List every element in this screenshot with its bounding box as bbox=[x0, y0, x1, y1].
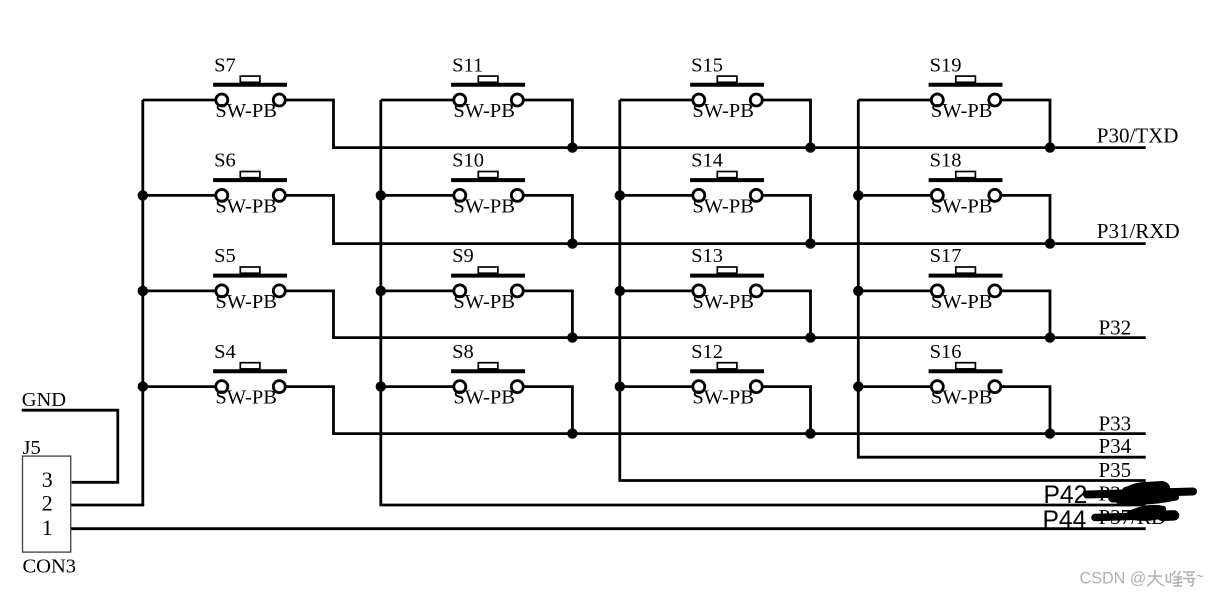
junction column 3 row 4 bbox=[615, 381, 625, 391]
wire column 2 vertical bus bbox=[379, 100, 382, 505]
wire column 3 bus to P35 bbox=[620, 479, 1146, 482]
watermark CSDN @大峰哥~ bbox=[1080, 569, 1205, 588]
junction row P31/RXD column 3 bbox=[805, 238, 815, 248]
wire S18 left contact to column bus bbox=[858, 194, 931, 197]
junction row P33 column 3 bbox=[805, 428, 815, 438]
wire column 3 vertical bus bbox=[618, 100, 621, 481]
svg-text:SW-PB: SW-PB bbox=[692, 291, 754, 313]
svg-text:CSDN @: CSDN @ bbox=[1080, 570, 1147, 588]
wire S7 left contact to column bus bbox=[143, 99, 216, 102]
wire S8 right contact down to row bus bbox=[524, 387, 573, 434]
junction row P30/TXD column 2 bbox=[567, 142, 577, 152]
svg-text:P34: P34 bbox=[1099, 434, 1132, 458]
svg-text:CON3: CON3 bbox=[23, 556, 77, 578]
junction column 3 row 2 bbox=[615, 190, 625, 200]
wire column 2 bus to P42 row bbox=[381, 503, 1146, 506]
wire S9 left contact to column bus bbox=[381, 289, 454, 292]
svg-text:3: 3 bbox=[42, 467, 53, 492]
svg-text:S15: S15 bbox=[691, 54, 723, 76]
wire S6 right contact down to row bus bbox=[286, 195, 334, 243]
wire S18 right contact down to row bus bbox=[1001, 195, 1050, 243]
junction column 2 row 4 bbox=[376, 381, 386, 391]
svg-text:SW-PB: SW-PB bbox=[453, 195, 515, 217]
pushbutton switch S11 bbox=[451, 54, 525, 122]
scribble over P37 label bbox=[1095, 508, 1174, 521]
connector J5 bbox=[23, 456, 71, 552]
pushbutton switch S19 bbox=[929, 54, 1003, 122]
svg-text:S16: S16 bbox=[930, 341, 962, 363]
pushbutton switch S10 bbox=[451, 150, 525, 218]
svg-text:S11: S11 bbox=[452, 54, 483, 76]
wire S15 left contact to column bus bbox=[620, 99, 693, 102]
wire S19 right contact down to row bus bbox=[1001, 100, 1050, 148]
svg-text:2: 2 bbox=[42, 491, 53, 516]
wire S5 right contact down to row bus bbox=[286, 291, 334, 338]
svg-text:S6: S6 bbox=[214, 150, 236, 172]
svg-text:SW-PB: SW-PB bbox=[215, 291, 277, 313]
svg-text:SW-PB: SW-PB bbox=[453, 100, 515, 122]
junction column 4 row 2 bbox=[853, 190, 863, 200]
pushbutton switch S16 bbox=[929, 341, 1003, 409]
wire S14 left contact to column bus bbox=[620, 194, 693, 197]
svg-text:S10: S10 bbox=[452, 150, 484, 172]
junction column 2 row 3 bbox=[376, 286, 386, 296]
svg-text:S8: S8 bbox=[452, 341, 474, 363]
wire S11 right contact down to row bus bbox=[524, 100, 573, 148]
junction row P31/RXD column 4 bbox=[1045, 238, 1055, 248]
wire S10 right contact down to row bus bbox=[524, 195, 573, 243]
wire S14 right contact down to row bus bbox=[763, 195, 811, 243]
svg-text:SW-PB: SW-PB bbox=[215, 100, 277, 122]
junction row P30/TXD column 3 bbox=[805, 142, 815, 152]
pushbutton switch S4 bbox=[213, 341, 287, 409]
pushbutton switch S7 bbox=[213, 54, 287, 122]
wire row bus P32 bbox=[332, 336, 1146, 339]
wire row bus P33 bbox=[332, 432, 1146, 435]
svg-text:P44: P44 bbox=[1043, 507, 1087, 534]
wire row bus P31/RXD bbox=[332, 242, 1146, 245]
svg-text:S14: S14 bbox=[691, 150, 723, 172]
wire S16 left contact to column bus bbox=[858, 385, 931, 388]
svg-text:SW-PB: SW-PB bbox=[215, 195, 277, 217]
pushbutton switch S8 bbox=[451, 341, 525, 409]
wire S7 right contact down to row bus bbox=[286, 100, 334, 148]
svg-text:SW-PB: SW-PB bbox=[931, 387, 993, 409]
pushbutton switch S12 bbox=[690, 341, 764, 409]
svg-text:J5: J5 bbox=[23, 437, 41, 459]
wire S13 left contact to column bus bbox=[620, 289, 693, 292]
pushbutton switch S18 bbox=[929, 150, 1003, 218]
junction column 1 row 2 bbox=[138, 190, 148, 200]
wire J5 pin 2 to column 1 bus bbox=[71, 504, 145, 507]
svg-text:P30/TXD: P30/TXD bbox=[1097, 123, 1179, 147]
wire S15 right contact down to row bus bbox=[763, 100, 811, 148]
svg-text:SW-PB: SW-PB bbox=[215, 387, 277, 409]
pushbutton switch S13 bbox=[690, 245, 764, 313]
wire S12 right contact down to row bus bbox=[763, 387, 811, 434]
svg-text:S17: S17 bbox=[930, 245, 962, 267]
junction column 4 row 3 bbox=[853, 286, 863, 296]
junction row P31/RXD column 2 bbox=[567, 238, 577, 248]
junction row P32 column 3 bbox=[805, 332, 815, 342]
svg-text:S19: S19 bbox=[930, 54, 962, 76]
wire J5 pin1 to P44 row bbox=[71, 527, 1146, 530]
wire GND to J5 pin 3 bbox=[22, 410, 118, 482]
svg-text:SW-PB: SW-PB bbox=[453, 291, 515, 313]
svg-text:GND: GND bbox=[22, 389, 66, 411]
junction column 2 row 2 bbox=[376, 190, 386, 200]
svg-text:SW-PB: SW-PB bbox=[931, 195, 993, 217]
junction row P30/TXD column 4 bbox=[1045, 142, 1055, 152]
svg-text:P35: P35 bbox=[1099, 458, 1132, 482]
junction column 3 row 3 bbox=[615, 286, 625, 296]
svg-text:S7: S7 bbox=[214, 54, 236, 76]
svg-text:P32: P32 bbox=[1099, 315, 1132, 339]
wire S10 left contact to column bus bbox=[381, 194, 454, 197]
wire column 4 vertical bus bbox=[857, 100, 860, 457]
pushbutton switch S14 bbox=[690, 150, 764, 218]
junction row P33 column 2 bbox=[567, 428, 577, 438]
wire S9 right contact down to row bus bbox=[524, 291, 573, 338]
svg-text:S4: S4 bbox=[214, 341, 236, 363]
svg-text:S13: S13 bbox=[691, 245, 723, 267]
svg-text:SW-PB: SW-PB bbox=[692, 387, 754, 409]
pushbutton switch S15 bbox=[690, 54, 764, 122]
wire S5 left contact to column bus bbox=[143, 289, 216, 292]
junction row P33 column 4 bbox=[1045, 428, 1055, 438]
wire S16 right contact down to row bus bbox=[1001, 387, 1050, 434]
svg-text:SW-PB: SW-PB bbox=[692, 100, 754, 122]
wire column 1 vertical bus bbox=[141, 100, 144, 505]
svg-text:SW-PB: SW-PB bbox=[931, 100, 993, 122]
svg-text:S18: S18 bbox=[930, 150, 962, 172]
junction column 1 row 4 bbox=[138, 381, 148, 391]
junction column 4 row 4 bbox=[853, 381, 863, 391]
svg-text:P33: P33 bbox=[1099, 411, 1132, 435]
pushbutton switch S17 bbox=[929, 245, 1003, 313]
scribble over P36 label bbox=[1087, 482, 1193, 503]
pushbutton switch S5 bbox=[213, 245, 287, 313]
svg-text:SW-PB: SW-PB bbox=[453, 387, 515, 409]
svg-text:1: 1 bbox=[42, 515, 53, 540]
wire column 4 bus to P34 bbox=[858, 456, 1145, 459]
wire S11 left contact to column bus bbox=[381, 99, 454, 102]
svg-text:P42: P42 bbox=[1044, 482, 1088, 509]
wire S8 left contact to column bus bbox=[381, 385, 454, 388]
svg-text:S12: S12 bbox=[691, 341, 723, 363]
wire S12 left contact to column bus bbox=[620, 385, 693, 388]
svg-text:S9: S9 bbox=[452, 245, 474, 267]
wire row bus P30/TXD bbox=[332, 146, 1146, 149]
pushbutton switch S9 bbox=[451, 245, 525, 313]
wire S13 right contact down to row bus bbox=[763, 291, 811, 338]
junction row P32 column 2 bbox=[567, 332, 577, 342]
wire S4 left contact to column bus bbox=[143, 385, 216, 388]
wire S17 right contact down to row bus bbox=[1001, 291, 1050, 338]
svg-text:S5: S5 bbox=[214, 245, 236, 267]
wire S19 left contact to column bus bbox=[858, 99, 931, 102]
pushbutton switch S6 bbox=[213, 150, 287, 218]
wire S4 right contact down to row bus bbox=[286, 387, 334, 434]
svg-text:SW-PB: SW-PB bbox=[692, 195, 754, 217]
svg-text:SW-PB: SW-PB bbox=[931, 291, 993, 313]
svg-text:P31/RXD: P31/RXD bbox=[1097, 219, 1180, 243]
junction row P32 column 4 bbox=[1045, 332, 1055, 342]
wire S17 left contact to column bus bbox=[858, 289, 931, 292]
junction column 1 row 3 bbox=[138, 286, 148, 296]
svg-text:~: ~ bbox=[1196, 569, 1204, 584]
wire S6 left contact to column bus bbox=[143, 194, 216, 197]
